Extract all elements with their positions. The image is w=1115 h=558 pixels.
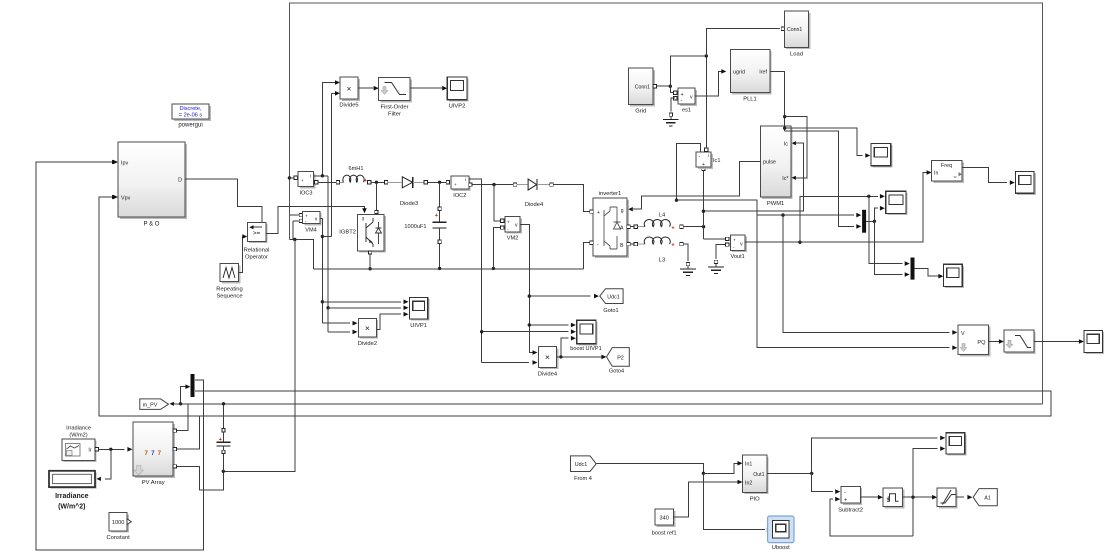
svg-text:+: + bbox=[702, 162, 705, 168]
svg-text:×: × bbox=[365, 323, 370, 333]
svg-text:P & O: P & O bbox=[144, 222, 160, 228]
PV Array block bbox=[135, 424, 175, 478]
svg-text:VM2: VM2 bbox=[507, 236, 519, 242]
wire Freq to scope4 bbox=[962, 168, 1007, 183]
svg-text:Operator: Operator bbox=[245, 255, 268, 261]
svg-text:V: V bbox=[961, 331, 965, 337]
Freq measurement block bbox=[933, 162, 964, 182]
wire VM4 v to Divide5 bbox=[331, 92, 335, 94]
scope UIVP2 bbox=[449, 79, 469, 102]
svg-text:PLL1: PLL1 bbox=[743, 97, 757, 103]
wire m signal to demux bbox=[181, 387, 186, 404]
wire current to PWM Ic bbox=[703, 143, 803, 211]
wire grid node to es1 bbox=[670, 86, 673, 93]
wire mux1 to scope2 input2 bbox=[874, 208, 877, 221]
svg-text:+: + bbox=[671, 243, 674, 249]
svg-text:Conn1: Conn1 bbox=[787, 27, 802, 33]
svg-text:-: - bbox=[681, 98, 683, 104]
svg-text:-: - bbox=[844, 490, 846, 496]
constant 340 boost ref bbox=[657, 511, 676, 527]
wire inductor to diode3 bbox=[371, 181, 384, 183]
wire IOC3 to inductor bbox=[318, 181, 336, 183]
svg-text:i: i bbox=[708, 153, 709, 158]
unit delay block bbox=[885, 490, 905, 509]
wire VM2 v output down bbox=[520, 225, 533, 353]
wire delay out to scope6 input2 bbox=[913, 449, 938, 498]
svg-text:D: D bbox=[178, 178, 182, 184]
subsystem Grid bbox=[630, 70, 655, 107]
svg-text:+: + bbox=[681, 92, 684, 98]
IOC2 current measurement block bbox=[446, 181, 449, 184]
goto tag P2 Goto4 bbox=[607, 348, 630, 367]
wire PV- to negative rail riser bbox=[223, 240, 294, 472]
wire Divide4 to Goto4 bbox=[557, 356, 602, 358]
svg-text:Diode3: Diode3 bbox=[400, 201, 418, 207]
wire IOC3 i to Divide5 bbox=[322, 83, 335, 176]
svg-text:Goto4: Goto4 bbox=[609, 368, 624, 374]
svg-text:Ir: Ir bbox=[88, 447, 91, 453]
display Irradiance readout bbox=[51, 472, 97, 488]
Divide4 block bbox=[540, 348, 558, 369]
wire IOC3 i branch down to Divide2 bbox=[327, 176, 329, 332]
voltage measurement VM2 bbox=[494, 185, 501, 221]
svg-text:Divide2: Divide2 bbox=[358, 341, 377, 347]
svg-text:pulse: pulse bbox=[763, 160, 776, 166]
subsystem PIO bbox=[745, 457, 769, 494]
wire tap to PQ V input bbox=[783, 215, 949, 332]
wire lowpass to scope5 bbox=[1034, 341, 1080, 343]
scope UIVP1 bbox=[411, 299, 429, 321]
svg-text:Uboost: Uboost bbox=[772, 545, 790, 551]
svg-text:PWM1: PWM1 bbox=[767, 201, 784, 207]
svg-text:Irradiance: Irradiance bbox=[55, 493, 89, 500]
wire grid to node bbox=[657, 85, 671, 87]
from tag Udc1 From4 bbox=[571, 456, 597, 472]
svg-text:1000uF1: 1000uF1 bbox=[404, 224, 426, 230]
transistor IGBT2 bbox=[375, 210, 378, 213]
IOC3 current measurement block bbox=[289, 177, 294, 179]
svg-text:>=: >= bbox=[253, 230, 261, 237]
scope Scope6 bbox=[948, 434, 967, 455]
svg-text:6mH1: 6mH1 bbox=[349, 166, 364, 172]
svg-text:boost UIVP1: boost UIVP1 bbox=[570, 346, 601, 352]
Repeating Sequence block bbox=[222, 265, 240, 283]
wire es1 minus to ground bbox=[671, 98, 675, 111]
svg-text:+: + bbox=[435, 213, 438, 219]
svg-text:In1: In1 bbox=[745, 462, 752, 468]
svg-text:Constant: Constant bbox=[106, 535, 130, 541]
lowpass filter block bbox=[1006, 332, 1036, 354]
wire Iref to PWM Ic* bbox=[785, 117, 807, 178]
svg-text:(W/m^2): (W/m^2) bbox=[58, 503, 85, 511]
wire relational operator output to IGBT gate bbox=[266, 207, 365, 234]
wire IOC2 i to Divide4 input2 bbox=[482, 362, 529, 364]
wire feedback to Subtract2 plus bbox=[830, 499, 913, 536]
svg-text:Filter: Filter bbox=[388, 112, 401, 118]
svg-text:w: w bbox=[954, 174, 957, 179]
svg-text:+: + bbox=[733, 239, 736, 244]
svg-text:+: + bbox=[507, 220, 510, 225]
svg-text:IGBT2: IGBT2 bbox=[339, 230, 356, 236]
First-Order Filter block bbox=[381, 80, 413, 103]
wire to UIVP1 input2 bbox=[328, 307, 401, 309]
wire PIO Out1 bbox=[767, 472, 812, 474]
svg-text:Ic*: Ic* bbox=[782, 176, 789, 182]
scope Scope5 bbox=[1086, 332, 1105, 354]
svg-text:From 4: From 4 bbox=[574, 476, 592, 482]
svg-text:boost ref1: boost ref1 bbox=[652, 531, 677, 537]
svg-text:= 2e-06 s: = 2e-06 s bbox=[179, 113, 203, 119]
svg-text:-: - bbox=[699, 154, 701, 160]
diode Diode4 bbox=[517, 184, 528, 186]
wire PV m output up bbox=[173, 404, 188, 431]
wire mux1 output bbox=[866, 220, 874, 222]
scope Scope2 bbox=[887, 193, 907, 215]
svg-text:Vpv: Vpv bbox=[121, 195, 131, 201]
wire Ic1 top to grid node bbox=[705, 56, 707, 148]
wire 340 to PIO In2 bbox=[674, 482, 738, 517]
svg-text:PV Array: PV Array bbox=[142, 480, 165, 486]
svg-text:UIVP1: UIVP1 bbox=[410, 323, 427, 329]
wire VM4 v up branch to Divide5 bbox=[322, 236, 331, 238]
svg-text:Divide4: Divide4 bbox=[538, 372, 558, 378]
svg-text:Udc1: Udc1 bbox=[607, 295, 620, 301]
svg-text:VM4: VM4 bbox=[305, 228, 317, 234]
svg-text:Relational: Relational bbox=[244, 248, 270, 254]
svg-text:Sequence: Sequence bbox=[216, 294, 242, 300]
wire From4 to PIO In1 bbox=[596, 463, 703, 473]
wire DC+ loop around diagram bbox=[289, 3, 1042, 404]
svg-text:Discrete,: Discrete, bbox=[179, 106, 202, 112]
svg-text:Udc1: Udc1 bbox=[575, 462, 588, 468]
wire P&amp;O D output to relational operator bbox=[185, 179, 262, 226]
PQ measurement block bbox=[960, 327, 991, 357]
wire node A to Ic1 bbox=[702, 170, 704, 226]
voltage measurement Vout1 bbox=[702, 227, 704, 239]
wire Divide4 out to boost scope input3 bbox=[561, 338, 569, 357]
svg-text:340: 340 bbox=[660, 516, 669, 522]
voltage measurement es1 bbox=[674, 91, 677, 94]
wire Vpv feedback long bbox=[99, 197, 1051, 416]
svg-text:+: + bbox=[597, 210, 600, 216]
svg-text:Out1: Out1 bbox=[753, 472, 764, 478]
wire Ic1 left branch bbox=[677, 143, 701, 200]
svg-text:Grid: Grid bbox=[635, 109, 646, 115]
demux bar bbox=[191, 374, 195, 397]
wire mux2 to scope3 bbox=[915, 269, 939, 277]
inductor L3 bbox=[630, 243, 634, 245]
goto tag A1 bbox=[973, 489, 997, 506]
Divide5 block bbox=[342, 79, 360, 101]
svg-text:Conn1: Conn1 bbox=[635, 84, 650, 90]
Irradiance signal builder block bbox=[64, 441, 97, 462]
svg-text:powergui: powergui bbox=[178, 123, 202, 129]
svg-text:es1: es1 bbox=[682, 108, 691, 114]
svg-text:+: + bbox=[454, 182, 457, 187]
svg-text:-: - bbox=[597, 242, 599, 248]
svg-text:Freq: Freq bbox=[941, 163, 952, 169]
svg-text:UIVP2: UIVP2 bbox=[449, 104, 466, 110]
wire L4 to node A bbox=[683, 226, 703, 228]
svg-text:IOC3: IOC3 bbox=[299, 190, 312, 196]
scope Scope4 bbox=[1017, 173, 1036, 195]
ground under L3 bbox=[686, 262, 689, 265]
svg-text:7: 7 bbox=[158, 450, 162, 457]
wire Vout branch to scope2 bbox=[800, 196, 878, 242]
svg-text:×: × bbox=[347, 84, 352, 94]
wire to Divide2 input1 bbox=[322, 322, 349, 324]
wire PV- rail link bbox=[289, 240, 313, 269]
svg-text:i: i bbox=[465, 177, 466, 183]
subsystem P&amp;O bbox=[120, 144, 187, 219]
svg-text:PIO: PIO bbox=[750, 496, 760, 502]
wire tap to boost scope input1 bbox=[529, 324, 568, 326]
svg-text:×: × bbox=[545, 352, 550, 362]
wire mux1 to mux2 input2 bbox=[874, 221, 902, 274]
svg-text:Diode4: Diode4 bbox=[525, 202, 544, 208]
svg-text:Ic: Ic bbox=[784, 141, 788, 147]
scope boost UIVP1 bbox=[578, 322, 597, 346]
svg-text:L4: L4 bbox=[659, 213, 666, 219]
svg-text:+: + bbox=[364, 178, 367, 184]
svg-text:In: In bbox=[934, 171, 938, 177]
wire filter to UIVP2 bbox=[410, 87, 442, 89]
svg-text:+: + bbox=[301, 178, 304, 183]
wire PLL1 Iref output bbox=[770, 71, 785, 130]
scope Uboost selected bbox=[768, 516, 794, 543]
ground under Vout1 bbox=[714, 260, 717, 263]
svg-text:Goto1: Goto1 bbox=[603, 308, 618, 314]
svg-text:+: + bbox=[671, 225, 674, 231]
svg-text:PQ: PQ bbox=[977, 340, 986, 346]
wire Divide5 to filter bbox=[358, 87, 374, 89]
node DC+ tap to IOC3 bbox=[288, 176, 291, 179]
wire Vout1 v long to Freq bbox=[745, 173, 927, 243]
wire L3 to ground bbox=[683, 244, 688, 261]
wire PWM pulse to inverter g bbox=[633, 161, 761, 209]
subsystem Load bbox=[781, 27, 784, 30]
wire IGBT emitter to bottom bus bbox=[368, 251, 371, 254]
wire to UIVP1 input1 bbox=[322, 301, 401, 303]
svg-text:Ic1: Ic1 bbox=[713, 158, 720, 164]
svg-text:Ipv: Ipv bbox=[121, 160, 128, 166]
wire to mux2 input1 bbox=[869, 196, 903, 263]
powergui block bbox=[174, 106, 211, 121]
wire Divide2 to UIVP1 bbox=[376, 314, 401, 329]
wire tap to PQ I input bbox=[757, 215, 949, 348]
svg-text:1000: 1000 bbox=[112, 520, 124, 526]
svg-text:P2: P2 bbox=[617, 355, 624, 361]
wire to Subtract2 minus bbox=[812, 473, 834, 491]
svg-text:i: i bbox=[310, 174, 311, 180]
wire VM4 v output bbox=[320, 217, 323, 219]
wire into m_PV tag bbox=[174, 403, 181, 405]
svg-text:Divide5: Divide5 bbox=[339, 103, 358, 109]
wire PV+ to bus riser bbox=[177, 416, 200, 449]
svg-text:m_PV: m_PV bbox=[143, 403, 158, 409]
svg-text:Vout1: Vout1 bbox=[730, 254, 744, 260]
svg-text:Subtract2: Subtract2 bbox=[838, 508, 863, 514]
wire saturation to A1 bbox=[956, 496, 964, 498]
wire node to Uboost scope bbox=[703, 473, 765, 529]
goto tag m_PV bbox=[140, 399, 169, 410]
svg-text:Repeating: Repeating bbox=[216, 287, 242, 293]
subsystem PWM1 bbox=[762, 128, 793, 199]
svg-text:(W/m2): (W/m2) bbox=[69, 433, 87, 439]
mux Mux2 bbox=[911, 258, 915, 280]
wire PQ to lowpass bbox=[989, 341, 1000, 343]
wire IOC2 to diode4 bbox=[469, 183, 472, 186]
wire IGBT collector to bus bbox=[375, 182, 377, 210]
voltage measurement VM4 bbox=[289, 214, 299, 216]
svg-text:+: + bbox=[305, 214, 308, 219]
wire es1 v to PLL1 bbox=[695, 71, 722, 95]
wire to Load bbox=[706, 29, 780, 56]
wire to display bbox=[105, 449, 111, 479]
svg-text:+: + bbox=[844, 498, 847, 504]
wire Iref branch to mux bbox=[785, 131, 855, 227]
wire inverter- from bus bbox=[584, 243, 591, 269]
svg-text:inverter1: inverter1 bbox=[599, 191, 622, 197]
wire to Divide2 input2 bbox=[328, 331, 350, 333]
svg-text:g: g bbox=[621, 208, 624, 214]
wire m_PV bus horizontal bbox=[171, 403, 1042, 405]
mux Mux1 bbox=[862, 210, 866, 233]
wire VM2 tap to Goto1 bbox=[529, 295, 590, 297]
svg-text:L3: L3 bbox=[659, 258, 665, 264]
wire unit delay to saturation bbox=[903, 496, 933, 498]
subsystem inverter1 bbox=[595, 200, 629, 258]
svg-text:Irradiance: Irradiance bbox=[66, 426, 91, 432]
capacitor C2 grid side bbox=[223, 404, 225, 429]
wire grid node up bbox=[670, 56, 706, 86]
wire diode3 to IOC2 bbox=[427, 181, 446, 183]
svg-text:7: 7 bbox=[151, 450, 155, 457]
wire repeating sequence to relational operator bbox=[239, 237, 243, 273]
wire bottom DC bus bbox=[313, 268, 583, 270]
wire IOC2 i to boost scope input2 bbox=[482, 331, 569, 333]
svg-text:ugrid: ugrid bbox=[733, 70, 745, 76]
ground under es1 bbox=[669, 113, 672, 116]
svg-text:In2: In2 bbox=[745, 480, 752, 486]
goto tag Udc1 Goto1 bbox=[600, 289, 623, 304]
Divide2 block bbox=[360, 320, 378, 339]
svg-text:Load: Load bbox=[790, 51, 803, 57]
wire Ic1 i to mux bbox=[677, 200, 855, 215]
wire to scope6 input1 bbox=[812, 438, 938, 474]
Subtract2 block bbox=[843, 488, 862, 505]
capacitor 1000uF1 bbox=[439, 182, 441, 207]
scope Scope1 bbox=[873, 145, 893, 167]
wire IOC3 i output bbox=[314, 175, 329, 177]
wire PV- loop bbox=[177, 466, 224, 489]
svg-text:7: 7 bbox=[144, 450, 148, 457]
svg-text:IOC2: IOC2 bbox=[453, 193, 466, 199]
wire irradiance to PV array bbox=[98, 448, 124, 450]
Relational Operator block bbox=[249, 224, 268, 243]
svg-text:Iref: Iref bbox=[759, 70, 767, 76]
wire Subtract2 to unit delay bbox=[860, 496, 878, 498]
current measurement Ic1 bbox=[702, 167, 705, 170]
wire Ipv feedback long bbox=[36, 162, 204, 550]
wire IOC2 i output down bbox=[469, 179, 482, 363]
constant block 1000 bbox=[111, 514, 129, 532]
svg-text:First-Order: First-Order bbox=[380, 105, 408, 111]
wire diode4 to inverter+ bbox=[553, 185, 590, 212]
diode Diode3 bbox=[388, 181, 402, 183]
svg-text:A1: A1 bbox=[984, 496, 991, 502]
wire Iref branch to scope bbox=[785, 128, 863, 155]
saturation block bbox=[939, 490, 958, 509]
subsystem PLL1 bbox=[732, 51, 772, 94]
scope Scope3 bbox=[945, 266, 964, 288]
